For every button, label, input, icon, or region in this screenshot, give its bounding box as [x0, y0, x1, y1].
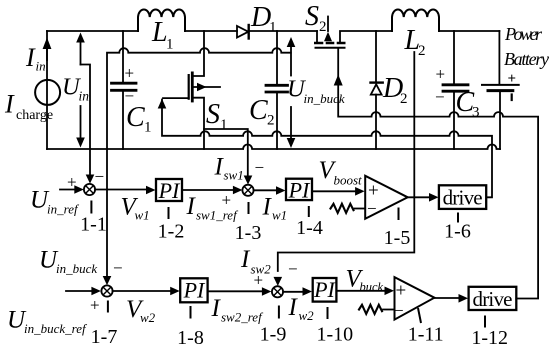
tick 1-12	[484, 316, 486, 328]
wire U_in feedback to node 1-1	[81, 65, 91, 175]
tick 1-6	[457, 213, 459, 223]
svg-text:I: I	[211, 295, 222, 322]
diode D1	[237, 25, 249, 39]
svg-text:1: 1	[220, 117, 228, 133]
svg-text:w1: w1	[135, 208, 150, 223]
svg-text:1-10: 1-10	[316, 324, 353, 346]
svg-text:−: −	[95, 167, 105, 186]
transistor S1 source	[193, 98, 204, 149]
wire PI 1-10 to comparator 1-11	[336, 290, 385, 292]
transistor S1 channel bar	[191, 73, 194, 101]
capacitor C2 plates	[266, 84, 288, 87]
arrow I_sw1 into node 1-3	[244, 176, 253, 185]
svg-text:2: 2	[418, 43, 426, 59]
svg-text:w1: w1	[272, 208, 287, 223]
svg-text:+: +	[90, 296, 100, 315]
transistor S1 gate bar	[188, 75, 190, 99]
drive block 1-12 box	[469, 287, 517, 310]
svg-text:1: 1	[166, 37, 174, 53]
svg-text:1-8: 1-8	[177, 327, 204, 349]
PI controller 1-4 box	[286, 179, 312, 200]
comparator 1-5	[365, 176, 408, 219]
svg-text:1-1: 1-1	[80, 214, 107, 236]
svg-text:sw1: sw1	[224, 168, 244, 183]
svg-text:+: +	[396, 281, 407, 302]
svg-text:in_buck_ref: in_buck_ref	[24, 321, 88, 336]
svg-text:Battery: Battery	[504, 49, 549, 69]
wire PI 1-8 to node 1-9	[208, 290, 262, 292]
svg-text:charge: charge	[16, 108, 53, 123]
wire node 1-1 to PI 1-2	[95, 189, 146, 191]
diode D2 branch bottom	[375, 95, 377, 149]
wire rail L1 to D1	[185, 30, 237, 32]
wire S1 drive (from gate down, along y135.8, up to drive 1-6)	[162, 100, 492, 198]
PI controller 1-8 box	[180, 278, 207, 302]
svg-text:1-11: 1-11	[408, 324, 444, 346]
wire U_in_buck tap (y53 horizontal + riser to node 1-7)	[107, 48, 291, 277]
wire U_in_buck_ref input	[66, 290, 91, 292]
svg-text:−: −	[125, 87, 135, 106]
tick 1-8	[190, 306, 192, 319]
svg-text:1: 1	[269, 20, 277, 36]
wire left branch upper	[46, 31, 48, 149]
svg-text:−: −	[394, 301, 404, 320]
svg-text:1-2: 1-2	[158, 221, 185, 243]
wire rail D1 to S2	[249, 30, 317, 32]
battery branch bottom	[499, 92, 501, 149]
svg-text:Power: Power	[504, 24, 543, 44]
tick 1-2	[168, 207, 170, 219]
svg-text:−: −	[435, 88, 445, 107]
capacitor C3 branch top	[453, 31, 455, 83]
capacitor C1 branch top	[122, 31, 124, 82]
summing node 1-7	[101, 285, 112, 296]
svg-text:PI: PI	[183, 278, 206, 303]
capacitor C1 plates	[112, 82, 137, 85]
summing node 1-3	[242, 185, 253, 196]
battery branch top	[498, 31, 500, 84]
svg-text:sw2_ref: sw2_ref	[221, 310, 264, 325]
sawtooth carrier 1-5	[331, 204, 354, 213]
svg-text:+: +	[67, 173, 77, 192]
battery minus tick	[511, 95, 513, 101]
svg-text:I: I	[4, 90, 15, 119]
svg-text:2: 2	[267, 113, 275, 129]
transistor S2 body arrow	[327, 17, 329, 32]
tick 1-4	[308, 206, 310, 217]
transistor S2 drain	[316, 31, 318, 43]
svg-text:1: 1	[144, 120, 152, 136]
tick 1-9	[278, 306, 280, 319]
svg-text:S: S	[206, 99, 220, 130]
measurement arrow U_in	[80, 41, 82, 65]
svg-text:drive: drive	[443, 186, 483, 210]
svg-text:1-3: 1-3	[235, 222, 262, 244]
svg-text:I: I	[186, 193, 197, 220]
tick 1-7	[107, 301, 109, 313]
svg-text:+: +	[125, 64, 135, 83]
wire I_sw2 sense route	[278, 52, 415, 271]
tick 1-1	[90, 201, 92, 214]
transistor S1 gate lead	[163, 97, 189, 99]
wire top rail left segment	[47, 30, 138, 32]
capacitor C3 plates	[443, 83, 468, 86]
svg-text:1-4: 1-4	[296, 217, 323, 239]
svg-text:1-9: 1-9	[260, 324, 287, 346]
svg-text:I: I	[240, 246, 251, 273]
wire U_in_ref input	[60, 189, 75, 191]
svg-text:w2: w2	[140, 310, 156, 325]
wire node 1-9 to PI 1-10	[283, 291, 302, 293]
wire I_sw1 sense tap	[204, 129, 248, 176]
svg-text:PI: PI	[158, 178, 181, 203]
svg-text:−: −	[255, 158, 265, 177]
wire bottom rail	[47, 145, 500, 150]
svg-text:w2: w2	[299, 308, 315, 323]
svg-text:I: I	[288, 294, 299, 321]
inductor L2	[392, 9, 439, 31]
wire PI 1-4 to comparator 1-5	[312, 190, 356, 192]
wire rail S2 to L2	[340, 31, 392, 43]
inductor L1	[138, 9, 185, 31]
current source I_charge circle	[35, 80, 60, 105]
wire node 1-3 to PI 1-4	[254, 189, 276, 191]
battery plates	[482, 84, 519, 86]
arrow S2 gate drive	[334, 75, 343, 86]
svg-text:C: C	[249, 95, 268, 126]
summing node 1-1	[84, 184, 95, 195]
wire PI 1-2 to node 1-3	[182, 189, 233, 191]
svg-text:PI: PI	[313, 277, 336, 302]
svg-text:boost: boost	[334, 173, 363, 188]
label ticks	[91, 201, 485, 328]
wire comparator 1-11 to drive 1-12	[434, 297, 458, 299]
svg-text:in_buck: in_buck	[304, 91, 345, 106]
svg-text:1-12: 1-12	[471, 327, 508, 349]
capacitor C2 branch bottom	[276, 94, 278, 150]
capacitor C1 branch bottom	[122, 92, 124, 149]
tick 1-5	[398, 208, 400, 221]
summing node 1-9	[272, 286, 283, 297]
svg-text:2: 2	[400, 91, 408, 107]
svg-text:drive: drive	[473, 287, 513, 311]
capacitor C3 branch bottom	[453, 93, 455, 150]
svg-text:3: 3	[472, 105, 480, 121]
arrow S1 gate drive	[158, 99, 167, 109]
svg-text:in: in	[79, 89, 90, 104]
svg-text:−: −	[367, 199, 377, 218]
tick 1-10	[327, 307, 329, 319]
transistor S1 drain	[193, 31, 204, 76]
svg-text:in: in	[36, 59, 46, 74]
svg-text:I: I	[262, 194, 273, 221]
svg-text:−: −	[113, 259, 123, 278]
diode D2	[371, 81, 383, 83]
tick 1-3	[248, 202, 250, 214]
diode D2 branch top	[375, 31, 377, 82]
svg-text:I: I	[25, 43, 36, 72]
measurement arrow U_in_buck	[290, 46, 292, 76]
arrow U_in_buck into node 1-7	[103, 276, 112, 285]
svg-text:+: +	[436, 65, 446, 84]
comparator 1-11	[395, 277, 435, 320]
svg-text:buck: buck	[360, 280, 384, 294]
PI controller 1-2 box	[156, 179, 182, 201]
svg-text:+: +	[254, 271, 264, 290]
sawtooth carrier 1-11	[359, 305, 382, 314]
capacitor C2 branch top	[276, 31, 278, 84]
svg-text:1-6: 1-6	[444, 221, 471, 243]
tick 1-11	[418, 308, 421, 323]
svg-text:S: S	[305, 1, 319, 32]
wire S2 drive (gate lead down, along y117, up from drive 1-12)	[338, 49, 538, 299]
svg-text:PI: PI	[288, 178, 311, 203]
transistor S2 channel segments	[314, 42, 346, 45]
svg-text:1-7: 1-7	[91, 326, 118, 348]
transistor S1 body arrow	[193, 86, 220, 88]
wire node 1-7 to PI 1-8	[113, 290, 170, 292]
drive block 1-6 box	[439, 185, 486, 209]
arrow I_in direction	[46, 49, 48, 60]
arrow I_sw2 into node 1-9	[274, 277, 283, 286]
svg-text:+: +	[508, 71, 517, 87]
wire rail L2 to battery	[439, 30, 499, 32]
svg-text:C: C	[126, 102, 145, 133]
svg-text:1-5: 1-5	[384, 227, 411, 249]
svg-text:in_ref: in_ref	[47, 202, 80, 217]
svg-text:2: 2	[319, 19, 327, 35]
svg-text:−: −	[288, 260, 298, 279]
transistor S2 gate bar	[316, 47, 345, 49]
svg-text:in_buck: in_buck	[56, 261, 97, 276]
wire comparator 1-5 to drive 1-6	[408, 196, 429, 198]
PI controller 1-10 box	[313, 278, 337, 302]
svg-text:sw1_ref: sw1_ref	[196, 208, 239, 223]
